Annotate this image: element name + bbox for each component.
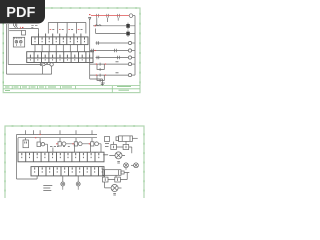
title block text marks [5,87,131,91]
red highlights page 1 [20,15,129,76]
PDF badge [0,0,45,24]
lamp P5 [128,74,131,77]
svg-text:PDF: PDF [6,5,35,21]
stubs above bus [26,130,93,134]
footer tag text [101,83,105,85]
red dots rung 7 [96,74,106,76]
frame tick marks page 1 [3,8,140,83]
sensor drop 2 [77,176,79,182]
relay unit K13 [91,138,101,153]
off-page arrow node [89,18,91,80]
wire between fuses [45,63,50,65]
wire to coil K2 [96,29,127,34]
red node bus lower [35,137,36,139]
feed wire upper [9,29,38,34]
sensor symbol B1 [61,182,65,186]
pump P1 [124,163,129,168]
red node dot [22,27,23,29]
fan motor M2 [105,182,122,192]
M2 muffler [113,194,116,196]
wire to coil K1 [93,25,126,27]
M1 label [103,154,108,156]
rung 7 wire [90,74,129,76]
coil K2 (solid) [126,32,130,36]
valve box V2b [115,175,121,182]
feed wire lower [9,30,21,32]
sensor drop 1 [62,176,64,182]
label text left [31,26,37,28]
bypass loop S2 [97,75,104,80]
meter box with CTs [13,37,24,47]
aux box marks [105,144,109,147]
breaker comb top bar [48,22,86,24]
fuse FU1 [40,63,45,66]
terminal strip X1 row 1 [32,34,89,45]
breaker labels [52,29,82,31]
red marks page 2 [35,135,90,144]
PSU stub [25,138,27,140]
left bus wire N [6,24,8,74]
red node bus K10 [39,134,40,136]
fuse label dots [46,62,48,64]
CT circle 2 [20,41,23,44]
relay row drop [52,148,54,153]
page 1 schematic [7,14,136,86]
contact bars S1 [99,63,101,71]
red tag K13 [89,143,90,145]
relay row labels [50,145,70,147]
bus bar top [17,134,98,136]
coil K2 pins [128,30,135,37]
valve wires 1 [116,147,131,153]
PSU marks [25,142,27,144]
valve box V2a [103,175,109,182]
contact drops [97,18,118,26]
contacts on rung 5 [97,56,119,60]
bypass loop S1 [97,64,104,69]
rail to title block [90,79,103,86]
aux box right of bus [105,137,110,142]
fan motor M1 [109,152,125,159]
valve wires 2 [108,173,127,180]
inner enclosure line [17,138,19,153]
lamp P0 [129,14,133,18]
coil K1 (solid) [126,24,130,28]
terminal strip X11 [31,167,104,176]
rung 4 wire [90,50,129,52]
bus bar bottom [18,137,97,139]
PSU box [23,140,29,148]
fuse FU2 [50,63,53,66]
red control rail L+ [91,15,129,17]
contacts on rung 4 [92,49,117,53]
contact on rung 3 [97,41,99,45]
relay unit K12 [74,138,90,153]
valve box V1a [111,142,117,150]
lamp P1 [128,41,131,44]
left bus wire L1 [7,24,9,64]
tag text rung 7 [116,72,119,74]
terminal strip X2 row 2 [27,52,93,63]
main switch Q1 blades [14,26,18,28]
rung 3 wire [96,42,129,44]
terminal strip X10 [18,152,104,162]
lamp P3 [128,56,131,59]
red dots rung 6 [96,63,106,65]
relay unit K11 [58,138,75,153]
coil K1 pins [128,23,135,30]
pump P2 [131,163,138,168]
enclosure outline [17,135,38,180]
drawing frame page 1 [3,8,140,93]
red arrow dot [89,14,91,16]
aux box A1 [22,31,26,36]
note text block [43,186,52,191]
arc contacts [95,25,101,26]
rung 6 wire [90,63,129,65]
lamp P2 [128,49,131,52]
red dot wire K1 [95,25,96,27]
rail tail to right rail [133,15,135,17]
cylinder actuator C1 [116,136,138,142]
contact bars S2 [99,74,101,82]
cylinder actuator C2 [103,168,130,176]
red tag K11 [56,143,57,145]
CT dot 1 [15,41,17,42]
red breaker tags [50,29,80,31]
title block page 1 [3,86,140,93]
red dot rung 4 [95,50,96,52]
feeder wire lower [8,63,42,65]
valve box V1b [123,141,129,149]
stubs above strip X1 [39,34,81,37]
drawing frame page 2 [5,126,144,198]
meter terminals [15,37,21,45]
CT dot 2 [20,41,22,42]
stubs between strips [35,45,85,52]
incomer wires under badge [14,24,17,26]
M1 muffler [117,162,120,164]
sensor symbol B2 [76,182,80,186]
rung 5 wire [96,57,129,59]
red stub incomer [19,27,21,29]
relay unit K10 [37,138,48,153]
fuse drops [43,66,52,74]
red tag K12 [72,143,73,145]
return wire lower [7,73,52,75]
right return rail [134,16,136,76]
contacts on control rail [97,14,120,18]
breaker comb verticals [48,23,86,34]
frame tick marks page 2 [5,126,144,192]
tag text rung 6 [116,61,119,63]
lamp P4 [128,63,131,66]
CT circle 1 [15,41,18,44]
